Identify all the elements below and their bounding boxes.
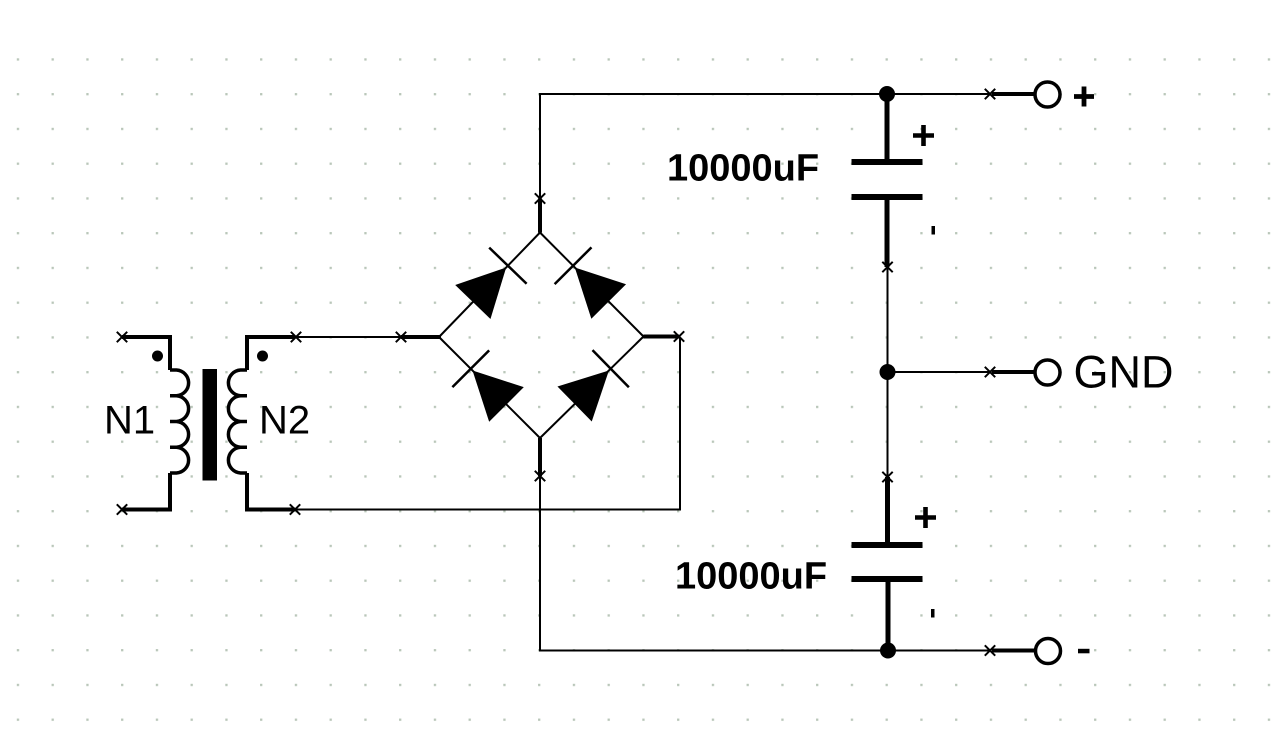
capacitor C1 lead top (885, 94, 890, 160)
pin x: N2 bottom (290, 504, 300, 514)
wire: bridge top to + rail (540, 94, 887, 199)
transformer phase dot N1 (152, 351, 163, 362)
pin x: N1 top (117, 332, 127, 342)
pin x: bridge bottom (535, 471, 545, 481)
svg-text:10000uF: 10000uF (667, 148, 819, 190)
label - (1078, 649, 1090, 654)
junction node GND rail (880, 364, 896, 380)
svg-text:N2: N2 (259, 399, 310, 443)
junction node - rail (880, 643, 896, 659)
diode D4 (bottom vertex to right vertex) (556, 350, 628, 422)
wire: GND node to C2 (887, 372, 889, 477)
pin x: C2 top (882, 472, 892, 482)
capacitor C2 minus polarity tick (931, 609, 935, 618)
pin x: bridge top (535, 193, 545, 203)
terminal stub GND (992, 370, 1035, 374)
capacitor C1 plate bottom (852, 194, 923, 200)
pin x: bridge right (674, 331, 684, 341)
wire: GND node to terminal (888, 371, 991, 373)
transformer T1 secondary winding N2 (228, 337, 295, 510)
pin x: - terminal (985, 645, 995, 655)
wire: N2 bottom to bridge right (node AC2) (295, 338, 680, 510)
svg-text:10000uF: 10000uF (675, 556, 827, 598)
wire: - rail to terminal (888, 650, 990, 652)
diode bridge diamond edge top-left (439, 233, 540, 338)
capacitor C2 lead bottom (886, 582, 891, 651)
diode bridge diamond edge bottom-right (540, 337, 644, 439)
transformer core (203, 369, 218, 481)
transformer phase dot N2 (257, 351, 268, 362)
terminal circle GND (1035, 360, 1060, 385)
capacitor C2 plate bottom (852, 576, 923, 582)
capacitor C1 plus polarity (913, 125, 934, 146)
bridge pin stub right (644, 335, 680, 339)
diode bridge diamond edge bottom-left (439, 337, 540, 438)
transformer T1 primary winding N1 (122, 337, 189, 510)
wire: bridge bottom to - rail (540, 476, 888, 651)
pin x: N1 bottom (117, 504, 127, 514)
diode bridge diamond edge top-right (540, 233, 644, 337)
capacitor C1 plate top (852, 159, 923, 165)
wire: N2 top to bridge left (node AC1) (296, 336, 401, 338)
pin x: + terminal (985, 89, 995, 99)
pin x: GND terminal (985, 367, 995, 377)
capacitor C1 lead bottom (885, 200, 890, 267)
pin x: N2 top (291, 332, 301, 342)
diode D2 (right vertex to top vertex) (555, 247, 627, 319)
capacitor C1 minus polarity tick (932, 226, 936, 235)
bridge pin stub left (401, 335, 441, 339)
svg-text:GND: GND (1074, 347, 1174, 398)
diode D1 (left vertex to top vertex) (454, 248, 526, 320)
diode D3 (bottom vertex to left vertex) (452, 350, 524, 422)
terminal stub - (992, 649, 1035, 653)
label + (1074, 87, 1094, 107)
wire: C1 to GND node (887, 267, 889, 372)
capacitor C2 plate top (852, 542, 923, 548)
junction node + rail (879, 86, 895, 102)
pin x: C1 bottom (882, 262, 892, 272)
capacitor C2 plus polarity (915, 507, 936, 528)
pin x: bridge left (396, 332, 406, 342)
bridge pin stub top (538, 199, 542, 233)
wire: + rail to terminal (887, 93, 990, 95)
svg-text:N1: N1 (104, 399, 155, 443)
terminal circle - (1036, 639, 1061, 664)
terminal stub + (992, 92, 1035, 96)
terminal circle + (1035, 82, 1060, 107)
bridge pin stub bottom (538, 438, 542, 476)
capacitor C2 lead top (885, 477, 890, 543)
